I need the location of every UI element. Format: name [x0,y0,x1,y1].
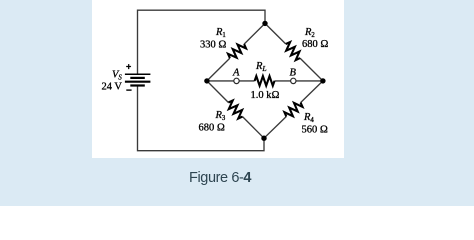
svg-text:330 Ω: 330 Ω [200,39,226,50]
svg-text:560 Ω: 560 Ω [302,125,328,136]
svg-text:24 V: 24 V [102,82,123,93]
svg-text:1.0 kΩ: 1.0 kΩ [251,90,280,101]
svg-text:680 Ω: 680 Ω [199,123,225,134]
svg-text:A: A [232,68,240,79]
svg-text:RL: RL [255,61,267,73]
svg-text:+: + [126,62,131,72]
svg-text:Figure 6-4: Figure 6-4 [189,170,251,186]
svg-text:−: − [126,86,132,97]
svg-text:680 Ω: 680 Ω [302,39,328,50]
svg-text:B: B [290,68,297,79]
